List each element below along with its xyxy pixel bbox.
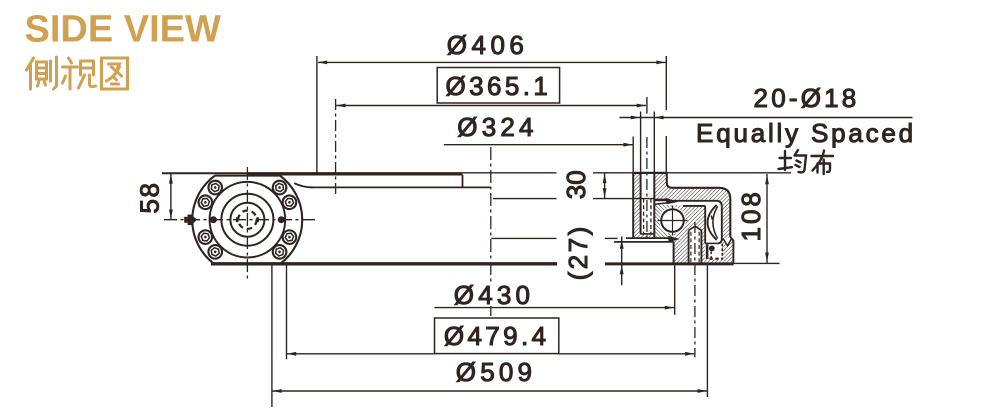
hatch column left strip	[633, 173, 640, 238]
svg-text:108: 108	[736, 189, 766, 241]
dowel dot left	[210, 216, 217, 223]
dim Ø365.1 box	[437, 68, 559, 104]
hatch top flange	[667, 183, 731, 207]
slot bottom tick	[641, 233, 655, 235]
raceway arrow bottom	[668, 236, 680, 242]
svg-text:30: 30	[561, 170, 591, 199]
column left edge	[632, 173, 634, 238]
bolt 5	[206, 179, 224, 197]
dim (27)	[491, 237, 621, 286]
outer ring top edge	[673, 188, 731, 199]
housing second surface line	[312, 186, 491, 188]
flange underside	[672, 201, 722, 207]
wall inner edge	[717, 206, 722, 243]
dim Ø324 line	[444, 144, 633, 146]
dowel dot right	[278, 216, 285, 223]
lower bolt hole	[689, 226, 702, 264]
housing top plate thick band	[248, 172, 463, 175]
crescent tick	[711, 216, 712, 220]
raceway slope line	[654, 203, 667, 205]
gear top edge	[683, 205, 705, 207]
svg-text:Ø479.4: Ø479.4	[444, 321, 550, 351]
svg-text:Ø365.1: Ø365.1	[446, 71, 552, 101]
flange circle r17	[230, 203, 264, 237]
bolt 1	[271, 179, 289, 197]
hatch under slot	[641, 234, 655, 239]
svg-text:Ø509: Ø509	[456, 357, 536, 387]
lower hole centerline	[694, 222, 696, 357]
ball cross lines	[658, 206, 688, 236]
grease fitting	[184, 215, 197, 226]
dim 108	[766, 174, 768, 263]
dim 20-Ø18 leader	[620, 117, 913, 119]
dim Ø406 ext left	[316, 56, 318, 173]
flange circle r26	[221, 194, 273, 246]
bottom ext for 108	[734, 262, 780, 264]
channel bottom	[705, 242, 717, 244]
bolt 3	[282, 229, 297, 244]
pocket floor	[614, 241, 674, 243]
svg-text:Ø430: Ø430	[454, 280, 534, 310]
dim Ø365.1 line	[336, 105, 646, 107]
text chinese 均布	[779, 150, 834, 174]
bolt 8	[206, 243, 224, 261]
title chinese 侧视图	[27, 57, 128, 89]
hatch below-ball mass	[654, 202, 673, 238]
white tooth notch	[723, 238, 733, 246]
hatch gear mass	[674, 206, 706, 244]
dim 30	[493, 173, 654, 199]
bolt 7	[198, 229, 213, 244]
slot left edge	[640, 173, 642, 234]
fillet flange to body	[294, 183, 312, 187]
raceway arrow top	[654, 198, 678, 204]
housing bottom thick edge	[211, 262, 557, 265]
flange circle r38	[210, 182, 286, 258]
flange vertical centerline	[246, 167, 248, 281]
svg-text:Ø406: Ø406	[447, 30, 529, 60]
bottom edge right part	[605, 262, 734, 265]
slot centerline	[646, 137, 648, 240]
white ball zone	[659, 207, 686, 234]
hidden bore dashed circle	[238, 211, 256, 229]
pocket right edge	[673, 242, 675, 264]
keyway tick left	[236, 217, 239, 222]
plate right step	[462, 175, 464, 188]
hatch bottom block	[674, 235, 734, 264]
hatch right strip	[654, 173, 667, 205]
slot hidden dashes	[644, 199, 651, 234]
dim Ø365.1 ext left centerline	[335, 99, 337, 197]
bolt 2	[282, 195, 297, 210]
worm horizontal centerline	[164, 219, 318, 221]
dim Ø479.4	[435, 318, 559, 354]
housing top thin edge	[162, 172, 250, 174]
svg-text:Ø324: Ø324	[457, 112, 537, 142]
dim Ø406 ext right	[665, 56, 667, 174]
svg-text:58: 58	[134, 182, 164, 214]
outer right edge	[729, 199, 731, 237]
gear right edge	[704, 206, 706, 244]
dim 58 line	[170, 173, 172, 219]
white lower hole	[689, 226, 702, 264]
bolt 6	[198, 195, 213, 210]
slot right edge	[653, 173, 655, 238]
keyway tick right	[256, 217, 259, 222]
column bottom edge	[626, 237, 674, 239]
svg-text:20-Ø18: 20-Ø18	[754, 83, 860, 113]
bearing axis centerline	[490, 147, 492, 282]
svg-text:(27): (27)	[563, 224, 593, 280]
dim Ø406 line	[318, 61, 666, 63]
section top surface line	[463, 172, 792, 174]
seal	[707, 244, 723, 259]
white seal cavity	[705, 243, 722, 259]
flange outer circle	[192, 176, 215, 264]
svg-text:SIDE VIEW: SIDE VIEW	[25, 9, 221, 51]
dim Ø365.1 ext right	[646, 97, 648, 114]
hatch outer wall	[722, 206, 731, 243]
dim Ø324 ext	[632, 137, 634, 174]
gear tooth crescent	[708, 205, 717, 240]
svg-text:Equally Spaced: Equally Spaced	[696, 118, 916, 148]
dim 20-Ø18 ext lines	[641, 112, 655, 174]
bearing ball	[661, 209, 684, 232]
white channel	[654, 201, 722, 243]
white bolt slot	[641, 173, 655, 234]
bolt 4	[271, 243, 289, 261]
lip right edge	[667, 173, 673, 188]
